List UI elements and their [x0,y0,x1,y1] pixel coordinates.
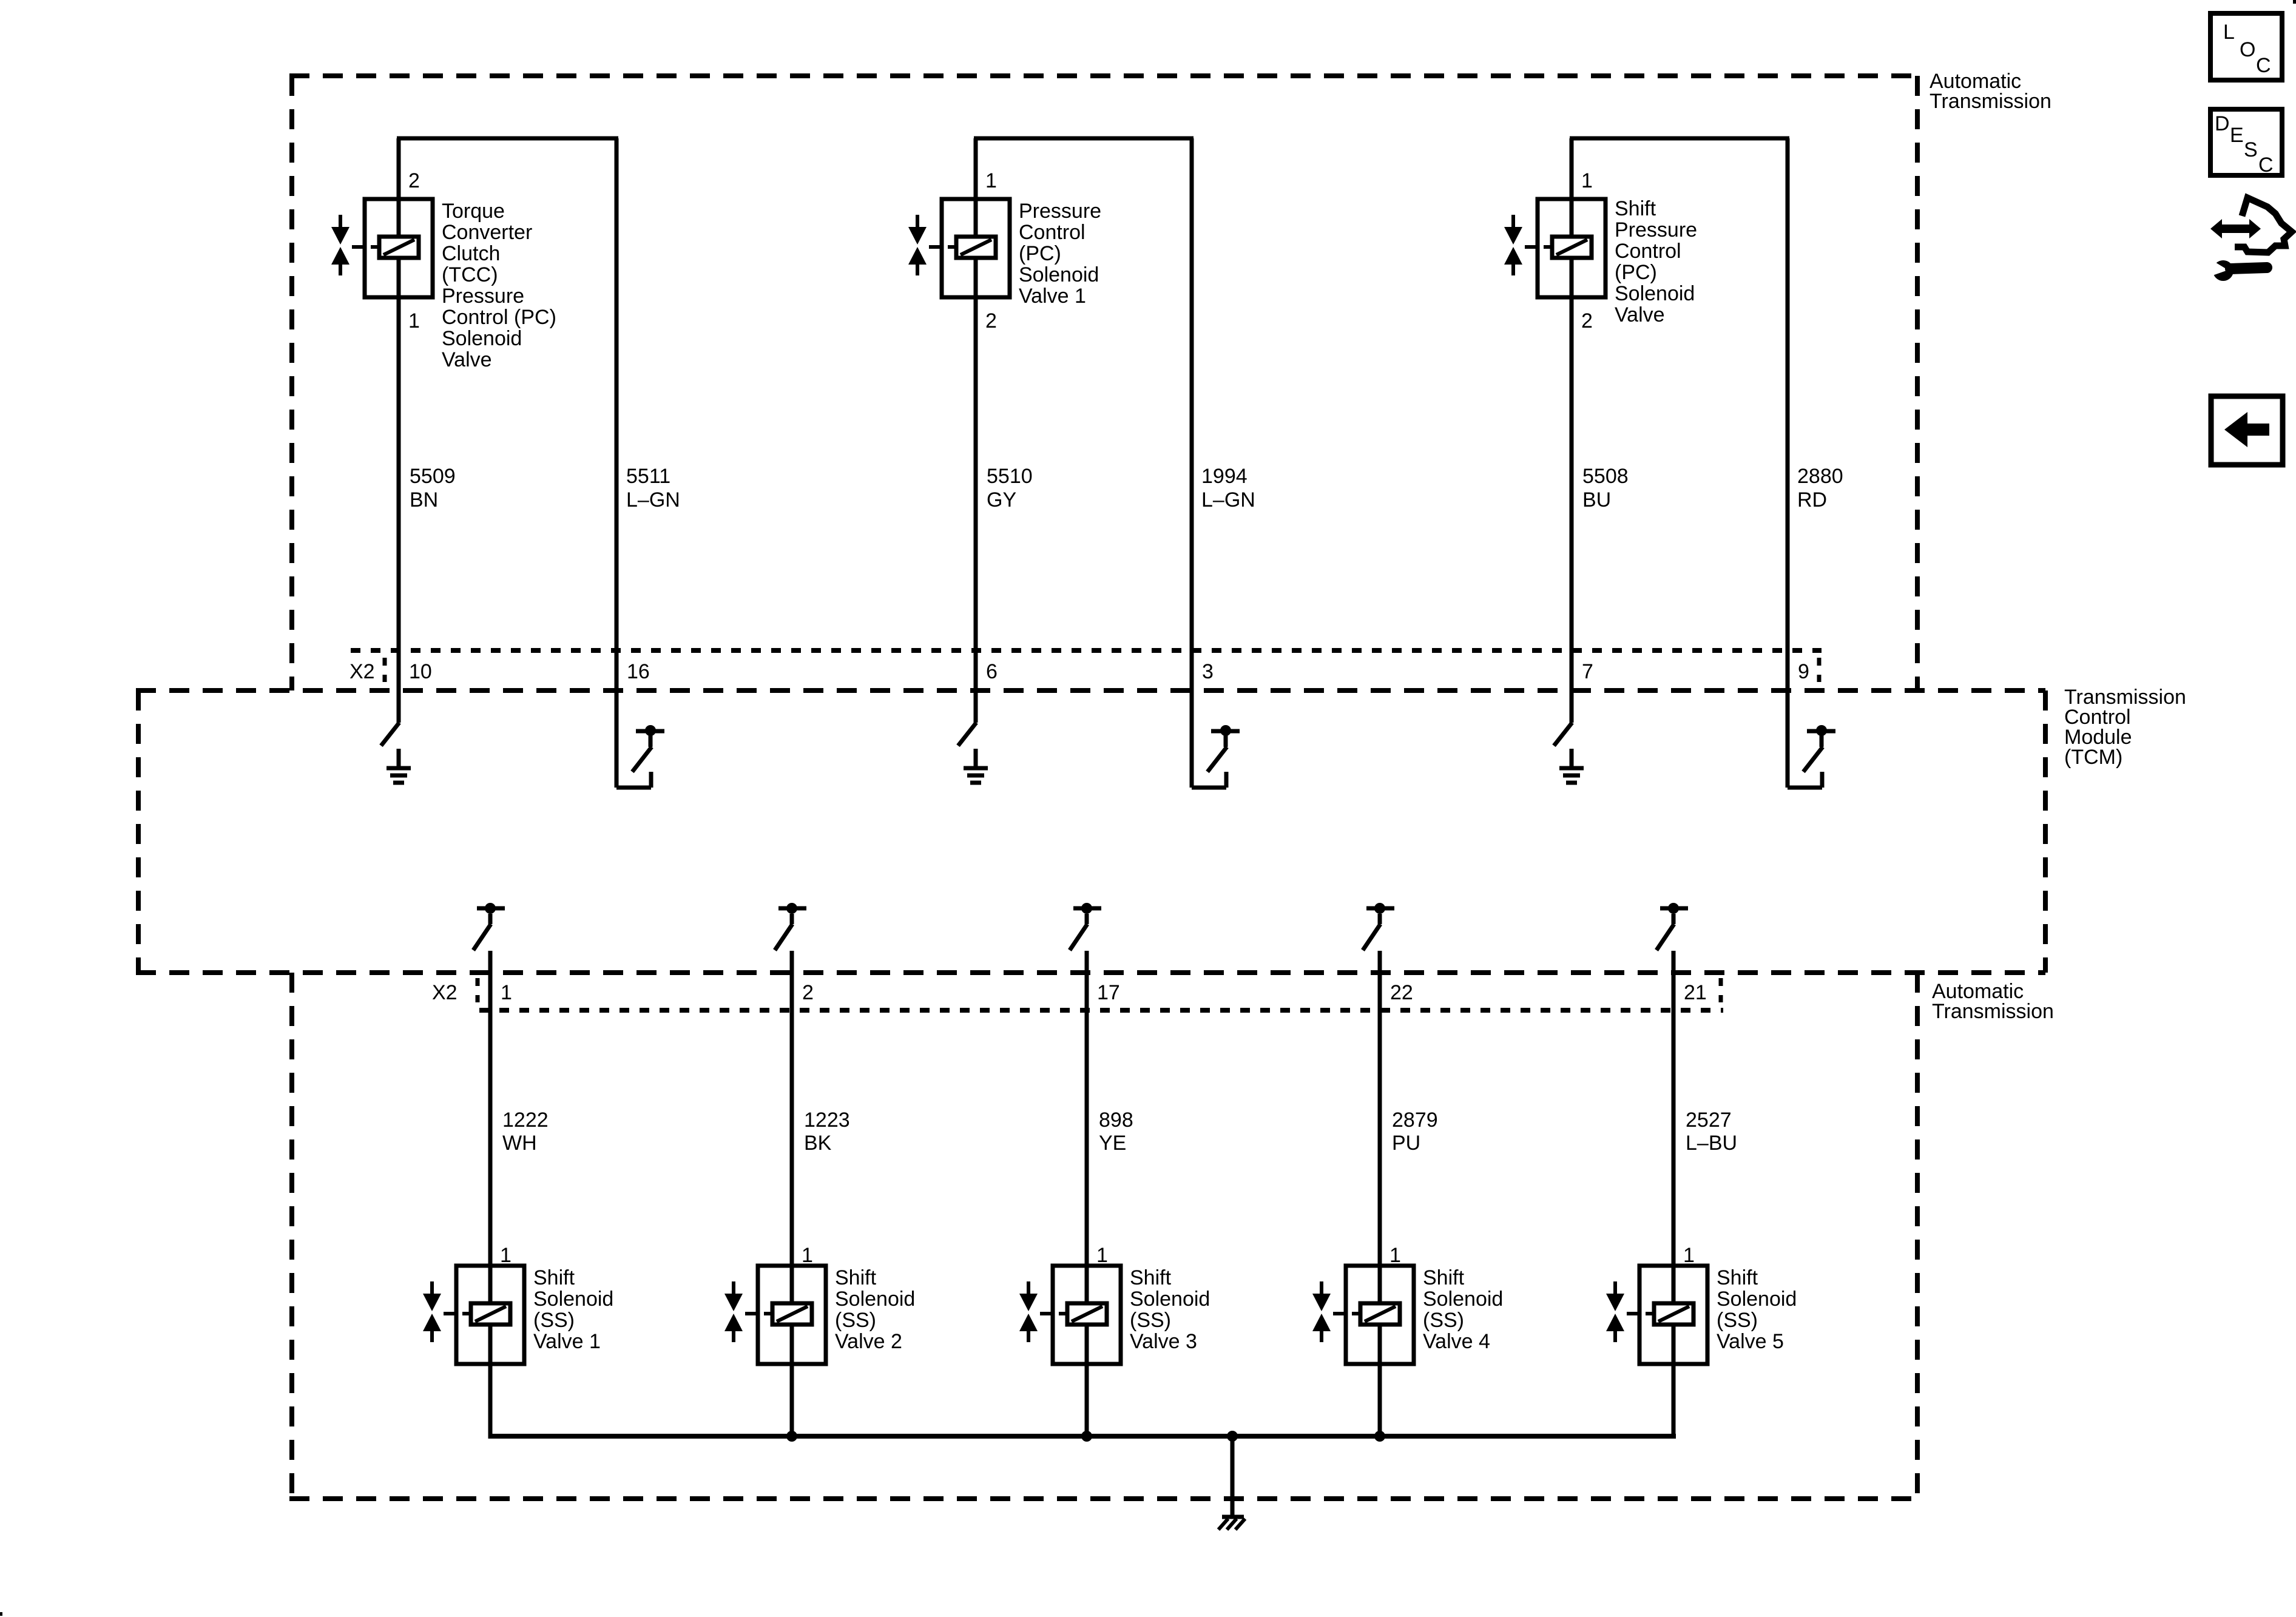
wire 5508 BU (lower segment to TCM pin 7) [1570,257,1574,723]
svg-text:O: O [2240,38,2255,61]
svg-text:17: 17 [1097,981,1120,1004]
label: Shift PC Solenoid Valve [1615,197,1697,326]
wire: common ground bus [488,1434,1676,1439]
wire 898 YE (vertical) [1085,951,1089,1305]
svg-text:Shift: Shift [533,1266,575,1289]
wire 2880 RD (W6 vertical) [1786,138,1790,788]
svg-text:Control (PC): Control (PC) [442,306,556,329]
junction node on ground bus (ground tap) [1227,1431,1238,1442]
svg-text:16: 16 [627,660,650,683]
TCM driver switch pin 1 (low-side, pivot dot) [473,903,505,950]
svg-text:Clutch: Clutch [442,242,500,265]
svg-text:E: E [2230,124,2244,147]
svg-text:1994: 1994 [1201,465,1248,488]
svg-text:(PC): (PC) [1019,242,1061,265]
svg-text:Solenoid: Solenoid [533,1288,613,1311]
svg-text:WH: WH [502,1132,537,1155]
svg-text:(TCC): (TCC) [442,263,498,286]
svg-text:Solenoid: Solenoid [1615,282,1695,305]
svg-text:1: 1 [802,1244,813,1267]
TCM driver switch pin 3 (feed contact) [1192,725,1240,788]
label: Shift Solenoid (SS) Valve 4 [1423,1266,1503,1353]
connector bracket left (top X2) [383,658,387,682]
solenoid: Torque Converter Clutch (TCC) Pressure Control (PC) Solenoid Valve [331,199,433,297]
svg-text:2: 2 [1581,309,1593,333]
svg-text:(PC): (PC) [1615,261,1657,284]
svg-text:2880: 2880 [1797,465,1843,488]
svg-text:6: 6 [986,660,998,683]
svg-text:Solenoid: Solenoid [442,327,522,350]
svg-text:BN: BN [410,488,438,511]
svg-text:7: 7 [1582,660,1593,683]
svg-text:Solenoid: Solenoid [835,1288,915,1311]
svg-text:5511: 5511 [626,465,670,488]
TCM driver switch pin 21 (low-side, pivot dot) [1656,903,1688,950]
svg-text:Valve 3: Valve 3 [1130,1330,1197,1353]
label: Shift Solenoid (SS) Valve 5 [1717,1266,1797,1353]
wire loop pair 1 (5509/5511) [397,137,618,141]
svg-text:1: 1 [501,981,512,1004]
junction node on ground bus (x=1305) [786,1431,797,1442]
svg-text:(SS): (SS) [533,1309,575,1332]
wire 1994 L-GN (W4 vertical) [1190,138,1194,788]
svg-text:C: C [2258,154,2274,177]
wire: ground drop [1231,1436,1235,1515]
connector bracket left (bottom X2) [476,978,480,1002]
TCM driver switch pin 22 (low-side, pivot dot) [1363,903,1394,950]
svg-text:Transmission: Transmission [1932,1000,2054,1023]
junction node on ground bus (x=1791) [1081,1431,1092,1442]
svg-text:L–GN: L–GN [1201,488,1255,511]
solenoid: Shift Solenoid (SS) Valve 1 [423,1266,524,1364]
ground (TCM pin 7) [1559,749,1584,783]
svg-text:1222: 1222 [502,1109,549,1132]
connector bracket right (bottom X2) [1719,978,1723,1002]
label: PC Solenoid Valve 1 [1019,200,1101,308]
wire loop pair 2 (5510/1994) [974,137,1194,141]
wire 1222 WH (segment to ground bus) [488,1323,493,1439]
svg-text:3: 3 [1202,660,1214,683]
svg-text:L–BU: L–BU [1686,1132,1737,1155]
svg-text:GY: GY [987,488,1016,511]
junction node on ground bus (x=2274) [1374,1431,1385,1442]
svg-text:RD: RD [1797,488,1827,511]
wire 1223 BK (segment to ground bus) [790,1323,794,1439]
svg-text:S: S [2244,138,2258,161]
svg-text:1: 1 [408,309,420,333]
svg-text:L–GN: L–GN [626,488,680,511]
enclosure: Automatic Transmission (bottom) [289,973,2054,1499]
solenoid: Shift Solenoid (SS) Valve 3 [1019,1266,1121,1364]
svg-text:X2: X2 [432,981,458,1004]
svg-text:Converter: Converter [442,221,532,244]
svg-text:1223: 1223 [804,1109,850,1132]
connector bracket right (top X2) [1817,658,1822,682]
svg-text:5508: 5508 [1582,465,1629,488]
svg-text:X2: X2 [349,660,375,683]
svg-text:L: L [2223,21,2235,44]
svg-text:Valve 2: Valve 2 [835,1330,902,1353]
enclosure: Transmission Control Module (TCM) [136,686,2186,973]
svg-text:(SS): (SS) [1130,1309,1171,1332]
icon: DESC box [2210,109,2282,177]
svg-text:2: 2 [985,309,997,333]
svg-text:Shift: Shift [1615,197,1656,220]
svg-text:1: 1 [1389,1244,1401,1267]
ground (TCM pin 6) [964,749,988,783]
wire 5510 GY (lower segment to TCM pin 6) [974,257,978,723]
TCM driver switch pin 16 (feed contact) [616,725,664,788]
svg-text:Shift: Shift [1717,1266,1758,1289]
page artifact dot bottom-left [0,1612,2,1616]
solenoid: Shift Solenoid (SS) Valve 4 [1312,1266,1414,1364]
svg-text:(SS): (SS) [1423,1309,1464,1332]
svg-text:Solenoid: Solenoid [1130,1288,1210,1311]
wire 5509 BN (lower segment to TCM pin 10) [397,257,401,723]
wire 5511 L-GN (W2 vertical) [615,138,619,788]
svg-text:Transmission: Transmission [1930,90,2051,113]
svg-text:Shift: Shift [835,1266,877,1289]
svg-text:Shift: Shift [1423,1266,1465,1289]
svg-text:10: 10 [409,660,432,683]
svg-text:1: 1 [1683,1244,1695,1267]
svg-text:Shift: Shift [1130,1266,1172,1289]
wire 1222 WH (vertical) [488,951,493,1305]
svg-text:BK: BK [804,1132,832,1155]
label: Shift Solenoid (SS) Valve 3 [1130,1266,1210,1353]
icon: connector-repair pictogram (double arrow, terminal outline, wrench) [2207,198,2292,281]
svg-text:Control: Control [1615,240,1681,263]
svg-text:5509: 5509 [410,465,456,488]
svg-text:5510: 5510 [987,465,1033,488]
svg-text:9: 9 [1798,660,1809,683]
svg-text:1: 1 [1581,169,1593,192]
svg-text:(SS): (SS) [1717,1309,1758,1332]
TCM driver switch pin 17 (low-side, pivot dot) [1070,903,1101,950]
svg-text:D: D [2215,112,2230,135]
wire 2527 L–BU (vertical) [1672,951,1676,1305]
svg-text:2879: 2879 [1392,1109,1438,1132]
TCM driver switch pin 6 (to ground) [958,723,976,746]
connector row X2 (top, dotted) [351,648,1822,653]
TCM driver switch pin 7 (to ground) [1554,723,1572,746]
connector row X2 (bottom, dotted) [479,1008,1723,1013]
ground (TCM pin 10) [387,749,411,783]
svg-text:Valve: Valve [442,348,492,371]
label: TCC PC Solenoid Valve [442,200,556,371]
page artifact dot top-right [2293,0,2296,4]
svg-text:Pressure: Pressure [442,285,524,308]
TCM driver switch pin 9 (feed contact) [1788,725,1835,788]
svg-text:Pressure: Pressure [1615,218,1697,241]
wire 2879 PU (vertical) [1378,951,1382,1305]
svg-text:Control: Control [1019,221,1086,244]
svg-text:898: 898 [1099,1109,1133,1132]
svg-text:Solenoid: Solenoid [1717,1288,1797,1311]
label: Shift Solenoid (SS) Valve 2 [835,1266,915,1353]
wire 898 YE (segment to ground bus) [1085,1323,1089,1439]
wire 1223 BK (vertical) [790,951,794,1305]
svg-text:Valve: Valve [1615,303,1665,326]
svg-text:2: 2 [802,981,814,1004]
solenoid: Shift Pressure Control (PC) Solenoid Valve [1504,199,1606,297]
svg-text:1: 1 [1096,1244,1108,1267]
TCM driver switch pin 10 (to ground) [381,723,399,746]
svg-text:(SS): (SS) [835,1309,876,1332]
svg-text:2527: 2527 [1686,1109,1732,1132]
svg-text:Solenoid: Solenoid [1423,1288,1503,1311]
wire 5510 GY (W3 vertical) [974,138,978,238]
svg-text:1: 1 [500,1244,512,1267]
solenoid: Shift Solenoid (SS) Valve 2 [724,1266,826,1364]
svg-text:21: 21 [1684,981,1707,1004]
svg-text:(TCM): (TCM) [2064,746,2122,769]
svg-text:Valve 1: Valve 1 [533,1330,601,1353]
svg-text:2: 2 [408,169,420,192]
svg-text:Solenoid: Solenoid [1019,263,1099,286]
svg-text:Torque: Torque [442,200,505,223]
wire 5509 BN (W1 vertical) [397,138,401,238]
enclosure: Automatic Transmission (top) [289,70,2051,690]
svg-text:BU: BU [1582,488,1611,511]
svg-text:Valve 4: Valve 4 [1423,1330,1490,1353]
svg-text:C: C [2256,54,2271,77]
solenoid: Shift Solenoid (SS) Valve 5 [1606,1266,1707,1364]
wire 2879 PU (segment to ground bus) [1378,1323,1382,1439]
ground (chassis, bottom) [1218,1517,1245,1530]
svg-text:PU: PU [1392,1132,1420,1155]
TCM driver switch pin 2 (low-side, pivot dot) [775,903,806,950]
wire loop pair 3 (5508/2880) [1570,137,1789,141]
svg-text:Pressure: Pressure [1019,200,1101,223]
svg-text:1: 1 [985,169,997,192]
svg-text:22: 22 [1390,981,1413,1004]
icon: back arrow box [2211,396,2283,465]
icon: LOC box [2210,13,2282,80]
svg-text:YE: YE [1099,1132,1126,1155]
label: Shift Solenoid (SS) Valve 1 [533,1266,613,1353]
wire 2527 L–BU (segment to ground bus) [1672,1323,1676,1439]
svg-text:Valve 5: Valve 5 [1717,1330,1784,1353]
wire 5508 BU (W5 vertical) [1570,138,1574,238]
svg-text:Valve 1: Valve 1 [1019,285,1086,308]
solenoid: Pressure Control (PC) Solenoid Valve 1 [908,199,1010,297]
